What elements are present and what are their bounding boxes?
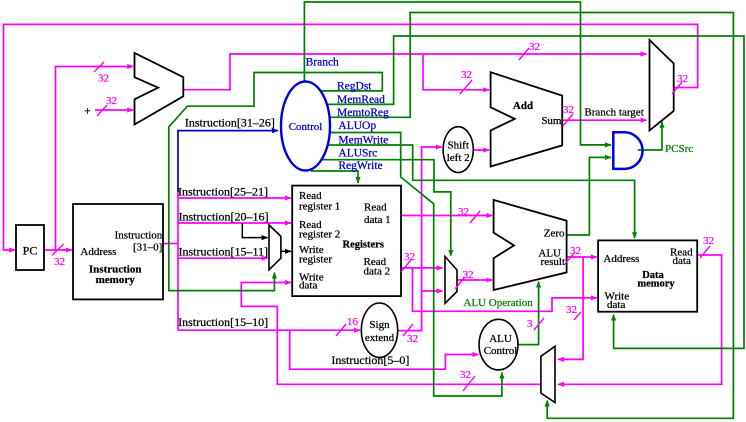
svg-text:32: 32 [460, 369, 471, 381]
wire Instruction[20-16] to read register 2 [178, 222, 291, 224]
svg-text:data: data [673, 255, 691, 267]
svg-text:register 1: register 1 [299, 201, 340, 213]
number 32 PC to adder [98, 73, 109, 85]
wire Instruction[25-21] to read register 1 [178, 197, 291, 199]
svg-text:ALUSrc: ALUSrc [338, 147, 377, 159]
svg-text:Instruction[5–0]: Instruction[5–0] [331, 353, 409, 367]
svg-text:Instruction[31–26]: Instruction[31–26] [185, 115, 275, 129]
wire PC feedback (mux out to PC) [4, 24, 698, 250]
write-register mux [269, 225, 281, 270]
number 32 write data [460, 369, 471, 381]
wire Branch control to AND gate [304, 2, 611, 145]
svg-text:PC: PC [23, 244, 38, 258]
svg-text:32: 32 [529, 41, 540, 53]
wire write-register mux out [281, 250, 291, 252]
slash ALU control 3 [534, 318, 544, 330]
wire ALU result to data memory address [567, 256, 597, 258]
number 16 sign extend [347, 316, 359, 328]
svg-text:32: 32 [404, 251, 415, 263]
slash +4 input [97, 105, 107, 116]
slash read data 1 [470, 211, 480, 223]
svg-text:memory: memory [96, 274, 136, 286]
wire Zero to AND gate [567, 157, 611, 235]
label Instruction[31-26] [185, 115, 275, 129]
registers box [292, 186, 401, 297]
BUS WIDTH NUMBERS [54, 41, 714, 381]
svg-text:ALU: ALU [489, 333, 512, 345]
svg-text:32: 32 [461, 69, 472, 81]
svg-text:Address: Address [80, 246, 116, 258]
svg-text:32: 32 [570, 245, 581, 257]
svg-text:Instruction[15–11]: Instruction[15–11] [179, 245, 269, 259]
label RegWrite [338, 160, 382, 172]
wire sign extend out vertical [398, 147, 442, 331]
shift left 2 oval [443, 127, 473, 173]
ALU control oval [479, 319, 518, 370]
svg-text:Control: Control [289, 121, 323, 133]
svg-text:32: 32 [407, 333, 418, 345]
svg-text:Add: Add [513, 100, 533, 112]
label MemtoReg [337, 107, 389, 119]
number 32 ALU result mux [566, 304, 577, 316]
plus sign constant 4 [84, 104, 91, 118]
wire Instruction[5-0] to ALU control [290, 330, 479, 369]
label Branch [306, 56, 339, 68]
slash PC to adder [94, 62, 104, 72]
svg-text:Address: Address [603, 253, 639, 265]
number 32 ALUsrc mux out [463, 269, 474, 281]
slash ALU result to mux [574, 312, 581, 320]
PCSrc mux [650, 40, 674, 131]
wire PC to adder [56, 67, 134, 251]
svg-text:Instruction[15–10]: Instruction[15–10] [178, 315, 268, 329]
svg-text:Instruction[25–21]: Instruction[25–21] [178, 184, 268, 198]
slash sign extend in [336, 324, 346, 336]
svg-text:left 2: left 2 [447, 152, 470, 164]
svg-text:Instruction[20–16]: Instruction[20–16] [179, 209, 269, 223]
wire sign extend to ALUsrc mux input 1 [422, 290, 443, 292]
wire ALU control operation to ALU [518, 282, 539, 345]
label MemRead [337, 94, 385, 106]
svg-text:data: data [299, 280, 317, 292]
wire writeback mux out to registers write data [241, 283, 541, 385]
label Branch target [584, 107, 643, 119]
number 32 mux out [677, 73, 688, 85]
BLACK CONNECTORS [242, 223, 291, 251]
svg-text:memory: memory [637, 279, 675, 290]
svg-text:extend: extend [365, 332, 395, 344]
svg-text:Shift: Shift [447, 139, 468, 151]
svg-text:RegDst: RegDst [337, 81, 372, 93]
svg-text:data: data [607, 299, 625, 311]
svg-text:16: 16 [347, 316, 359, 328]
svg-text:[31–0]: [31–0] [133, 242, 162, 254]
svg-text:32: 32 [106, 95, 117, 107]
slash read data 2 [401, 260, 411, 272]
wire RegWrite control to registers [311, 171, 358, 183]
wire ALUSrc control to ALUsrc mux [322, 160, 451, 256]
svg-text:register: register [299, 254, 332, 266]
svg-text:32: 32 [463, 269, 474, 281]
svg-text:32: 32 [458, 206, 469, 218]
label Instruction[20-16] [179, 209, 269, 223]
AND gate PCSrc [613, 132, 642, 169]
label Instruction[5-0] [331, 353, 409, 367]
number 32 sign extend out [407, 333, 418, 345]
PC register [16, 225, 44, 270]
wire PC+4 adder out to PCSrc mux [183, 54, 646, 90]
ALUsrc mux [445, 257, 457, 304]
number 32 +4 [106, 95, 117, 107]
wire AND out PCSrc to mux select [638, 122, 662, 150]
wire instruction bus vertical [177, 190, 179, 330]
slash ALU result [565, 252, 575, 264]
control unit oval [281, 82, 330, 171]
label RegDst [337, 81, 372, 93]
label ALUSrc [338, 147, 377, 159]
wire Instruction[31-26] to control [178, 131, 278, 192]
svg-text:32: 32 [703, 235, 714, 247]
svg-text:ALUOp: ALUOp [338, 120, 376, 132]
number 32 PC out [54, 256, 65, 268]
label PCSrc [665, 143, 693, 155]
svg-text:Branch: Branch [306, 56, 339, 68]
label Instruction[15-11] [179, 245, 269, 259]
slash Sum out [563, 114, 573, 126]
slash add top input [460, 80, 472, 94]
svg-text:result: result [541, 256, 565, 268]
BUS WIDTH MARKS [52, 48, 710, 391]
svg-text:data 2: data 2 [364, 265, 391, 277]
wire RegDst control to write-register mux [169, 73, 382, 291]
label Instruction[25-21] [178, 184, 268, 198]
data memory box [598, 240, 697, 311]
svg-text:3: 3 [527, 318, 533, 330]
svg-text:+: + [84, 104, 91, 118]
slash read data out [700, 246, 710, 258]
svg-text:data 1: data 1 [364, 214, 391, 226]
label ALUOp [338, 120, 376, 132]
wire read data 2 to data memory write data [413, 268, 597, 311]
svg-text:PCSrc: PCSrc [665, 143, 693, 155]
label MemWrite [338, 135, 388, 147]
label ALU Operation [463, 297, 533, 309]
WIRES-GREEN [169, 2, 744, 418]
wire shift left 2 out to Add [473, 149, 489, 151]
svg-text:Branch target: Branch target [584, 107, 643, 119]
number 32 ALU result [570, 245, 581, 257]
wire ALUsrc mux out to ALU [457, 279, 492, 281]
svg-text:ALU Operation: ALU Operation [463, 297, 533, 309]
svg-text:MemWrite: MemWrite [338, 135, 388, 147]
wire read data 2 to ALUsrc mux [401, 267, 443, 269]
wire instruction memory out [163, 243, 178, 245]
slash PC out [52, 244, 64, 255]
slash mux out top right [672, 82, 682, 94]
svg-text:Instruction: Instruction [115, 230, 163, 242]
wire read data 1 to ALU [401, 215, 492, 217]
slash PC+4 top [519, 48, 529, 60]
svg-text:32: 32 [566, 304, 577, 316]
svg-text:32: 32 [563, 104, 574, 116]
wire read data to writeback mux [558, 255, 722, 384]
wire PC out to instruction memory [44, 249, 72, 251]
wire ALU result to writeback mux [558, 257, 583, 359]
wire MemtoReg control to writeback mux [330, 13, 734, 419]
wire Instruction[20-16] tap to mux input 0 [242, 223, 267, 238]
svg-text:32: 32 [98, 73, 109, 85]
svg-text:32: 32 [54, 256, 65, 268]
wire Instruction[15-10] to sign extend [178, 329, 360, 331]
wire PC+4 branch to Add [423, 54, 489, 90]
svg-text:Sum: Sum [541, 115, 562, 127]
wire +4 constant into adder [95, 109, 133, 111]
ALU [494, 200, 567, 290]
svg-text:Read: Read [364, 202, 387, 214]
number 32 read data 1 [458, 206, 469, 218]
svg-text:Control: Control [484, 345, 518, 357]
Add branch adder [491, 72, 563, 166]
svg-text:MemtoReg: MemtoReg [337, 107, 389, 119]
number 32 Sum [563, 104, 574, 116]
WIRES-BLUE [178, 131, 278, 192]
writeback mux [541, 346, 555, 402]
svg-text:Zero: Zero [544, 228, 565, 240]
number 32 PC+4 top [529, 41, 540, 53]
slash write data memory [463, 376, 475, 391]
label Instruction[15-10] [178, 315, 268, 329]
wire Instruction[15-11] to mux [178, 257, 268, 259]
wire MemRead control to data memory [327, 36, 744, 348]
adder PC+4 [135, 53, 184, 125]
wire Sum branch target to PCSrc mux [562, 119, 646, 121]
svg-text:MemRead: MemRead [337, 94, 385, 106]
number 32 read data [703, 235, 714, 247]
slash ALUsrc mux out [455, 277, 465, 289]
number 3 ALU control [527, 318, 533, 330]
svg-text:Registers: Registers [343, 240, 384, 251]
svg-text:register 2: register 2 [299, 229, 340, 241]
svg-text:32: 32 [677, 73, 688, 85]
svg-text:Sign: Sign [369, 319, 390, 331]
svg-text:RegWrite: RegWrite [338, 160, 382, 172]
instruction memory box [73, 204, 163, 299]
sign extend oval [361, 303, 397, 357]
wire MemWrite control to data memory [328, 145, 635, 238]
slash sign extend out [403, 324, 413, 336]
number 32 add top [461, 69, 472, 81]
number 32 read data 2 [404, 251, 415, 263]
wire ALUOp control to ALU control [330, 133, 502, 397]
